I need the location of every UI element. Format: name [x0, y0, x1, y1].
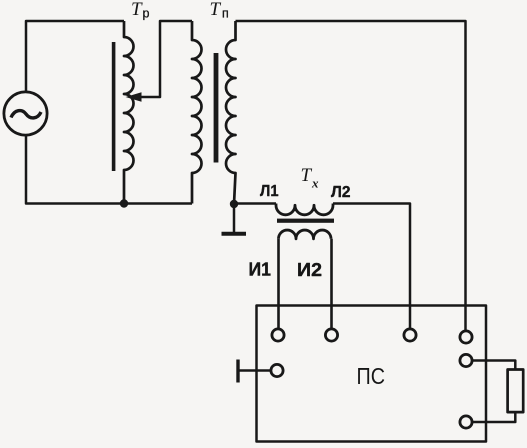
- svg-text:Л1: Л1: [260, 183, 279, 200]
- terminal 2 (I2): [325, 329, 337, 341]
- svg-text:T: T: [131, 0, 143, 20]
- terminal 5 (left input): [271, 364, 283, 376]
- wire L2 to PS terminal: [333, 204, 410, 336]
- svg-text:x: x: [311, 176, 319, 191]
- svg-text:ПС: ПС: [357, 363, 386, 389]
- AC sine symbol: [11, 111, 41, 118]
- wire junction to L1: [234, 202, 276, 205]
- wiper arrow of Tp: [140, 21, 192, 97]
- junction dot at Tp bottom: [120, 199, 128, 207]
- wire top: Tn secondary to right vertical: [236, 21, 466, 337]
- terminal 7: [460, 416, 472, 428]
- wire resistor bottom to terminal7: [472, 412, 515, 422]
- probe bar: [236, 360, 239, 383]
- Tp core bar: [112, 42, 116, 171]
- PS box: [257, 306, 487, 442]
- resistor R: [508, 370, 524, 413]
- wire I1 to PS terminal: [277, 239, 280, 335]
- terminal 6: [460, 354, 472, 366]
- probe input wire: [238, 369, 271, 372]
- ground: [233, 204, 236, 232]
- wire terminal6 to resistor top: [472, 361, 515, 370]
- Tx secondary winding: [279, 230, 332, 239]
- terminal 1 (I1): [272, 329, 284, 341]
- autotransformer Tp winding: [124, 21, 134, 204]
- terminal 3 (L2): [404, 329, 416, 341]
- wire I2 to PS terminal: [330, 239, 333, 335]
- svg-text:Л2: Л2: [331, 184, 351, 201]
- Tn core bar: [214, 53, 219, 163]
- svg-text:р: р: [143, 7, 150, 21]
- wire source top to Tp top: [26, 21, 124, 92]
- svg-text:п: п: [222, 7, 229, 21]
- Tn secondary winding: [226, 21, 236, 204]
- svg-text:T: T: [210, 0, 222, 20]
- junction dot at Tn secondary bottom: [230, 200, 238, 208]
- svg-text:И1: И1: [249, 259, 272, 280]
- svg-text:И2: И2: [297, 259, 322, 280]
- transformer Tn primary winding: [192, 21, 202, 204]
- svg-text:T: T: [301, 165, 313, 186]
- AC source G1: [4, 92, 47, 135]
- terminal 4 (top right): [460, 331, 472, 343]
- current transformer Tx primary winding: [276, 204, 333, 215]
- wire bottom: source to Tn primary: [26, 136, 192, 204]
- Tx core bar: [277, 219, 334, 223]
